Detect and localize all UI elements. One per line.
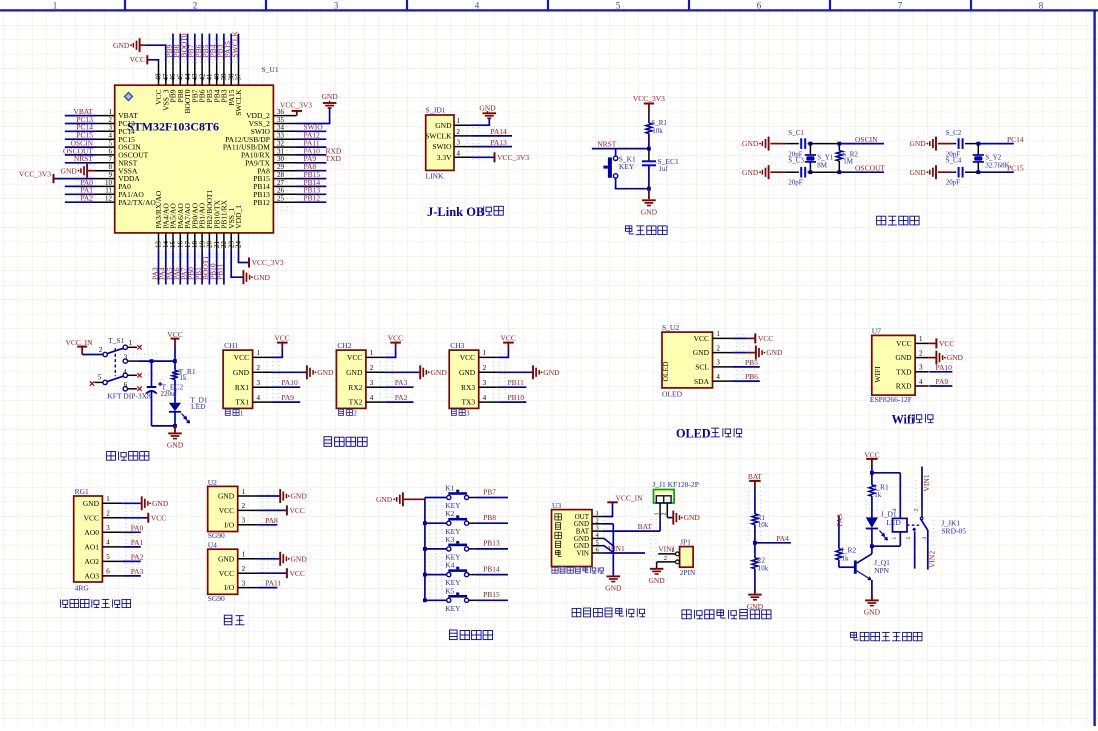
svg-text:PB8: PB8 (483, 513, 496, 522)
svg-text:J_R2: J_R2 (841, 546, 857, 555)
svg-text:1: 1 (109, 108, 113, 116)
svg-text:5: 5 (109, 140, 113, 148)
svg-text:PA11: PA11 (265, 579, 281, 588)
svg-text:3: 3 (242, 579, 246, 587)
svg-text:35: 35 (277, 116, 285, 124)
svg-text:5: 5 (906, 537, 912, 540)
svg-text:20pF: 20pF (946, 179, 961, 187)
svg-text:PB5: PB5 (745, 358, 758, 367)
svg-text:4: 4 (123, 368, 127, 376)
svg-text:PB7: PB7 (483, 487, 496, 496)
svg-text:J-Link OB: J-Link OB (427, 205, 484, 219)
svg-text:TXD: TXD (896, 367, 912, 376)
svg-text:10k: 10k (758, 564, 769, 572)
svg-text:PB11: PB11 (508, 378, 525, 387)
svg-text:3: 3 (922, 537, 928, 540)
svg-text:2: 2 (257, 364, 261, 372)
svg-text:U2: U2 (208, 478, 217, 487)
svg-text:PA9: PA9 (936, 377, 949, 386)
svg-text:RX3: RX3 (461, 383, 475, 392)
svg-text:AO2: AO2 (84, 557, 99, 566)
svg-text:VCC_3V3: VCC_3V3 (280, 101, 312, 110)
svg-text:GND: GND (543, 368, 560, 377)
svg-text:PB14: PB14 (483, 564, 500, 573)
svg-text:32: 32 (277, 140, 285, 148)
svg-text:SWCLK: SWCLK (230, 31, 239, 58)
svg-text:VCC: VCC (151, 513, 166, 522)
svg-text:5: 5 (616, 1, 621, 11)
svg-text:VCC: VCC (290, 506, 305, 515)
svg-text:SWIO: SWIO (432, 142, 452, 151)
svg-text:JP1: JP1 (680, 538, 691, 547)
svg-text:1: 1 (457, 117, 461, 125)
svg-text:2: 2 (457, 128, 461, 136)
svg-text:I/O: I/O (224, 583, 235, 592)
svg-text:S_C3: S_C3 (788, 157, 804, 165)
svg-text:J_J1 KF128-2P: J_J1 KF128-2P (652, 480, 698, 489)
svg-text:R2: R2 (757, 557, 766, 565)
svg-text:SRD-05: SRD-05 (941, 526, 966, 535)
svg-text:GND: GND (233, 368, 250, 377)
svg-text:S_C2: S_C2 (946, 129, 962, 137)
svg-text:2: 2 (193, 1, 198, 11)
svg-text:4: 4 (483, 394, 487, 402)
svg-text:1uf: 1uf (659, 165, 669, 173)
svg-text:Wifi: Wifi (892, 412, 915, 426)
svg-text:3: 3 (716, 359, 720, 367)
svg-text:KEY: KEY (619, 162, 635, 171)
svg-text:GND: GND (435, 121, 452, 130)
svg-text:GND: GND (641, 208, 658, 217)
svg-text:GND: GND (321, 92, 338, 101)
svg-text:OLED: OLED (676, 427, 711, 441)
svg-text:CH1: CH1 (224, 341, 238, 350)
svg-text:STM32F103C8T6: STM32F103C8T6 (127, 120, 219, 134)
svg-text:GND: GND (152, 499, 169, 508)
svg-text:10: 10 (105, 179, 113, 187)
svg-text:3: 3 (257, 379, 261, 387)
svg-text:AO3: AO3 (84, 572, 99, 581)
svg-text:GND: GND (864, 608, 881, 617)
svg-text:VIN1: VIN1 (658, 544, 675, 553)
svg-text:4: 4 (257, 394, 261, 402)
svg-text:4: 4 (457, 149, 461, 157)
svg-text:1: 1 (483, 349, 487, 357)
svg-text:PA3: PA3 (395, 378, 408, 387)
svg-text:PA10: PA10 (281, 378, 298, 387)
svg-text:GND: GND (218, 492, 235, 501)
svg-text:PA8: PA8 (265, 516, 278, 525)
svg-text:GND: GND (479, 103, 496, 112)
svg-text:PA2: PA2 (395, 393, 408, 402)
svg-text:3: 3 (919, 364, 923, 372)
svg-text:1: 1 (716, 330, 720, 338)
svg-text:7: 7 (898, 1, 903, 11)
svg-text:PA0: PA0 (131, 523, 144, 532)
svg-text:TX2: TX2 (349, 398, 363, 407)
svg-text:1: 1 (919, 335, 923, 343)
svg-text:20pF: 20pF (788, 179, 803, 187)
svg-text:10k: 10k (652, 127, 663, 135)
svg-text:GND: GND (113, 41, 130, 50)
svg-text:PB15: PB15 (483, 590, 500, 599)
svg-text:PA5: PA5 (835, 514, 844, 527)
svg-text:24: 24 (235, 241, 243, 249)
svg-text:1: 1 (892, 537, 898, 540)
svg-text:VIN1: VIN1 (922, 474, 931, 491)
svg-text:2: 2 (370, 364, 374, 372)
svg-text:S_Y1: S_Y1 (817, 153, 833, 161)
svg-text:29: 29 (277, 163, 285, 171)
svg-text:4: 4 (370, 394, 374, 402)
svg-text:PA4: PA4 (776, 534, 789, 543)
svg-text:VCC: VCC (130, 55, 145, 64)
svg-text:7: 7 (109, 155, 113, 163)
svg-text:GND: GND (742, 168, 759, 177)
svg-text:1M: 1M (843, 157, 854, 165)
svg-text:LED: LED (191, 402, 206, 411)
svg-text:PB13: PB13 (483, 539, 500, 548)
svg-text:GND: GND (909, 168, 926, 177)
svg-text:GND: GND (766, 348, 783, 357)
svg-text:K4: K4 (445, 561, 454, 570)
svg-text:ESP8266-12F: ESP8266-12F (870, 395, 912, 404)
svg-text:1: 1 (257, 349, 261, 357)
svg-text:GND: GND (909, 139, 926, 148)
svg-text:VCC: VCC (694, 334, 709, 343)
svg-text:SWCLK: SWCLK (234, 89, 243, 116)
svg-text:CH3: CH3 (450, 341, 464, 350)
svg-text:AO1: AO1 (84, 543, 99, 552)
svg-text:GND: GND (431, 368, 448, 377)
svg-text:PA13: PA13 (490, 138, 507, 147)
svg-text:2: 2 (99, 346, 103, 354)
svg-text:6: 6 (124, 381, 128, 389)
svg-text:27: 27 (277, 179, 285, 187)
svg-text:3: 3 (466, 410, 470, 418)
svg-text:32.768K: 32.768K (985, 161, 1009, 169)
svg-text:GND: GND (742, 139, 759, 148)
svg-text:VIN2: VIN2 (928, 551, 937, 568)
svg-text:2: 2 (242, 565, 246, 573)
svg-text:RG1: RG1 (75, 487, 89, 496)
svg-text:2: 2 (596, 517, 599, 524)
svg-text:GND: GND (317, 368, 334, 377)
svg-text:PA10: PA10 (936, 363, 953, 372)
svg-text:37: 37 (235, 73, 243, 81)
svg-text:PB11: PB11 (216, 263, 225, 280)
svg-text:TX1: TX1 (235, 398, 249, 407)
svg-text:BAT: BAT (638, 522, 653, 531)
svg-text:PA2: PA2 (80, 194, 93, 203)
svg-text:PB6: PB6 (745, 372, 758, 381)
svg-text:5: 5 (596, 539, 599, 546)
svg-text:WIFI: WIFI (873, 366, 882, 383)
svg-text:GND: GND (693, 348, 710, 357)
svg-text:S_U1: S_U1 (262, 65, 279, 74)
svg-text:K3: K3 (445, 535, 454, 544)
svg-text:VIN1: VIN1 (608, 544, 625, 553)
svg-text:3: 3 (370, 379, 374, 387)
svg-text:NRST: NRST (74, 154, 94, 163)
svg-text:25: 25 (277, 195, 285, 203)
svg-text:4: 4 (106, 539, 110, 547)
svg-text:3: 3 (596, 525, 599, 532)
svg-text:GND: GND (895, 353, 912, 362)
svg-text:2: 2 (919, 349, 923, 357)
svg-text:SCL: SCL (695, 363, 709, 372)
svg-text:VCC: VCC (347, 353, 362, 362)
svg-text:VCC: VCC (939, 339, 954, 348)
svg-text:PB10: PB10 (508, 393, 525, 402)
svg-text:2: 2 (662, 513, 668, 516)
svg-text:1: 1 (596, 510, 599, 517)
svg-text:1: 1 (106, 495, 110, 503)
svg-text:NPN: NPN (874, 566, 890, 575)
svg-text:4: 4 (892, 509, 898, 512)
svg-text:33: 33 (277, 132, 285, 140)
svg-text:VCC: VCC (758, 334, 773, 343)
svg-text:VCC_3V3: VCC_3V3 (633, 94, 665, 103)
svg-text:KFT DIP-3X8: KFT DIP-3X8 (107, 391, 151, 400)
svg-text:4: 4 (716, 373, 720, 381)
svg-text:VCC: VCC (274, 333, 289, 342)
svg-text:SG90: SG90 (208, 594, 225, 603)
svg-text:1k: 1k (842, 555, 850, 563)
svg-text:RX1: RX1 (235, 383, 249, 392)
svg-text:4RG: 4RG (75, 584, 90, 593)
svg-text:2: 2 (716, 344, 720, 352)
svg-text:GND: GND (254, 273, 271, 282)
svg-text:I/O: I/O (224, 520, 235, 529)
svg-text:S_Y2: S_Y2 (985, 153, 1001, 161)
svg-text:4: 4 (919, 378, 923, 386)
svg-text:VCC: VCC (290, 569, 305, 578)
svg-text:TX3: TX3 (461, 398, 475, 407)
svg-text:TXD: TXD (326, 154, 342, 163)
svg-text:GND: GND (218, 554, 235, 563)
svg-text:1: 1 (242, 488, 246, 496)
svg-text:SDA: SDA (694, 377, 710, 386)
svg-text:RXD: RXD (896, 382, 912, 391)
svg-text:1: 1 (129, 339, 133, 347)
svg-text:5: 5 (106, 553, 110, 561)
svg-text:PB12: PB12 (304, 194, 321, 203)
svg-text:T_S1: T_S1 (108, 336, 125, 345)
svg-text:J_R1: J_R1 (873, 482, 889, 491)
svg-text:PA3: PA3 (131, 567, 144, 576)
svg-text:11: 11 (105, 187, 112, 195)
svg-text:NRST: NRST (597, 140, 617, 149)
svg-text:PC15: PC15 (1007, 163, 1024, 172)
svg-text:GND: GND (684, 513, 701, 522)
svg-text:2: 2 (483, 364, 487, 372)
svg-text:S_C4: S_C4 (946, 157, 962, 165)
svg-text:3: 3 (242, 517, 246, 525)
svg-text:1: 1 (53, 1, 58, 11)
svg-text:3: 3 (457, 139, 461, 147)
svg-text:S_U2: S_U2 (662, 323, 679, 332)
svg-text:VCC: VCC (84, 513, 99, 522)
svg-text:26: 26 (277, 187, 285, 195)
svg-text:4: 4 (109, 132, 113, 140)
svg-text:U4: U4 (208, 541, 217, 550)
svg-text:30: 30 (277, 155, 285, 163)
svg-text:GND: GND (167, 441, 184, 450)
svg-text:6: 6 (757, 1, 762, 11)
svg-text:1: 1 (655, 513, 661, 516)
svg-text:VCC: VCC (219, 506, 234, 515)
svg-text:GND: GND (376, 495, 393, 504)
svg-text:2: 2 (913, 509, 919, 512)
svg-text:2: 2 (353, 410, 357, 418)
svg-text:5: 5 (98, 374, 102, 382)
svg-text:10k: 10k (758, 521, 769, 529)
svg-text:S_R1: S_R1 (651, 119, 667, 127)
svg-text:31: 31 (277, 147, 285, 155)
svg-text:VDD_1: VDD_1 (234, 205, 243, 229)
svg-text:U7: U7 (872, 326, 881, 335)
svg-text:GND: GND (459, 368, 476, 377)
svg-text:K2: K2 (445, 509, 454, 518)
svg-text:VCC: VCC (896, 339, 911, 348)
svg-text:PA2/TX/AO: PA2/TX/AO (118, 198, 156, 207)
svg-text:220uf: 220uf (161, 390, 178, 398)
svg-text:2: 2 (109, 116, 113, 124)
svg-text:VCC: VCC (460, 353, 475, 362)
svg-text:KEY: KEY (445, 604, 461, 613)
svg-text:6: 6 (109, 147, 113, 155)
svg-text:1: 1 (242, 551, 246, 559)
svg-text:9: 9 (109, 171, 113, 179)
svg-text:PC14: PC14 (1007, 135, 1024, 144)
svg-text:3: 3 (334, 1, 339, 11)
svg-text:VCC_IN: VCC_IN (616, 494, 644, 503)
svg-text:VCC: VCC (219, 569, 234, 578)
svg-text:K5: K5 (445, 586, 454, 595)
svg-text:S_C1: S_C1 (788, 129, 804, 137)
svg-text:1k: 1k (874, 491, 882, 499)
svg-text:OSCOUT: OSCOUT (855, 163, 885, 172)
svg-text:RX2: RX2 (348, 383, 362, 392)
svg-text:3: 3 (109, 124, 113, 132)
svg-text:SG90: SG90 (208, 531, 225, 540)
svg-text:1: 1 (370, 349, 374, 357)
svg-text:GND: GND (648, 576, 665, 585)
svg-text:3.3V: 3.3V (437, 153, 452, 162)
svg-text:CH2: CH2 (337, 341, 351, 350)
svg-text:U3: U3 (552, 501, 561, 510)
svg-text:3: 3 (124, 354, 128, 362)
svg-text:8: 8 (1039, 1, 1044, 11)
svg-text:8M: 8M (817, 161, 828, 169)
svg-text:GND: GND (61, 166, 78, 175)
svg-text:GND: GND (747, 602, 764, 611)
svg-text:S_JD1: S_JD1 (426, 106, 446, 115)
svg-text:SWCLK: SWCLK (425, 132, 452, 141)
svg-text:OLED: OLED (662, 389, 683, 398)
svg-text:PA14: PA14 (490, 127, 507, 136)
svg-text:OSCIN: OSCIN (855, 135, 878, 144)
svg-text:2: 2 (106, 510, 110, 518)
svg-text:GND: GND (291, 554, 308, 563)
svg-text:VCC_3V3: VCC_3V3 (19, 170, 51, 179)
svg-text:12: 12 (105, 195, 113, 203)
svg-text:GND: GND (291, 492, 308, 501)
svg-text:OLED: OLED (661, 361, 670, 382)
svg-text:VCC: VCC (234, 353, 249, 362)
svg-text:GND: GND (947, 353, 964, 362)
svg-text:2PIN: 2PIN (680, 568, 696, 577)
svg-text:1: 1 (240, 410, 244, 418)
svg-text:3: 3 (106, 524, 110, 532)
svg-text:3: 3 (483, 379, 487, 387)
svg-text:VCC_3V3: VCC_3V3 (497, 153, 529, 162)
svg-text:VCC: VCC (500, 333, 515, 342)
svg-text:VCC: VCC (388, 333, 403, 342)
svg-text:PA9: PA9 (281, 393, 294, 402)
svg-text:GND: GND (346, 368, 363, 377)
svg-text:K1: K1 (445, 484, 454, 493)
svg-text:8: 8 (109, 163, 113, 171)
svg-text:2: 2 (242, 502, 246, 510)
svg-text:GND: GND (605, 584, 622, 593)
svg-text:PB12: PB12 (253, 198, 270, 207)
svg-text:LINK: LINK (426, 172, 444, 181)
svg-text:28: 28 (277, 171, 285, 179)
svg-text:PA1: PA1 (131, 538, 144, 547)
svg-text:BAT: BAT (748, 472, 763, 481)
svg-text:34: 34 (277, 124, 285, 132)
svg-text:GND: GND (83, 499, 100, 508)
svg-text:AO0: AO0 (84, 528, 99, 537)
svg-text:VCC_3V3: VCC_3V3 (252, 258, 284, 267)
svg-text:1k: 1k (180, 374, 188, 382)
svg-text:PA2: PA2 (131, 552, 144, 561)
svg-text:VIN: VIN (577, 549, 589, 557)
svg-text:4: 4 (475, 1, 480, 11)
svg-text:6: 6 (106, 568, 110, 576)
